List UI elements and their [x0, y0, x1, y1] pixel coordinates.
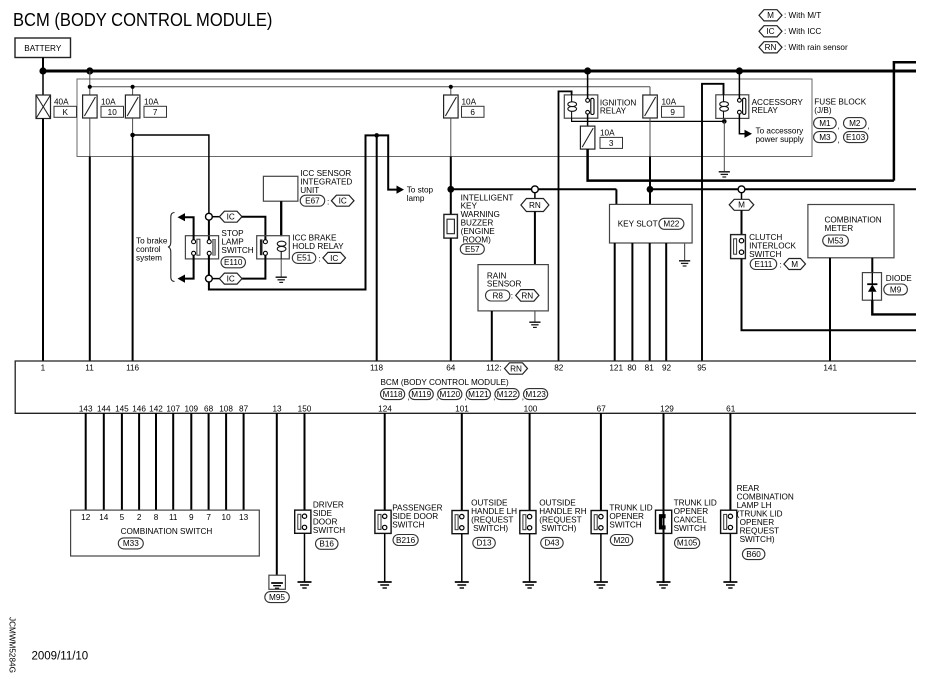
- svg-text:81: 81: [645, 363, 655, 372]
- svg-text:145: 145: [115, 405, 129, 414]
- passenger side door switch B216: [375, 503, 443, 533]
- svg-text:107: 107: [166, 405, 180, 414]
- svg-text:M2: M2: [849, 119, 861, 128]
- label fuse block: [814, 98, 866, 115]
- wire bus to accessory relay contact: [738, 71, 740, 99]
- svg-text:87: 87: [239, 405, 249, 414]
- svg-text::: :: [511, 292, 513, 301]
- svg-text:,: ,: [838, 122, 840, 131]
- svg-text:3: 3: [609, 139, 614, 148]
- svg-text:67: 67: [597, 405, 607, 414]
- node coil ground junction: [722, 119, 727, 124]
- connector D13: [473, 537, 496, 548]
- svg-text:M1: M1: [819, 119, 831, 128]
- wire driver door switch to ground: [304, 533, 306, 582]
- svg-text:11: 11: [85, 363, 94, 372]
- svg-text:13: 13: [239, 513, 249, 522]
- svg-text:E57: E57: [465, 245, 480, 254]
- wire diode to right edge: [872, 300, 916, 314]
- wire accessory relay coil to BCM pin 95: [702, 84, 724, 361]
- svg-text:116: 116: [126, 363, 139, 372]
- connector M105: [675, 537, 700, 548]
- svg-text:HOLD RELAY: HOLD RELAY: [292, 242, 344, 251]
- battery: [15, 38, 71, 58]
- rain sensor R8: [478, 265, 548, 311]
- wire junction to BCM pin 118: [376, 135, 378, 361]
- svg-text:IC: IC: [339, 197, 347, 206]
- wire ignition relay coil to BCM pin 82: [559, 91, 572, 361]
- svg-text:IC: IC: [330, 254, 338, 263]
- node buzzer tap: [447, 186, 454, 193]
- pin 142: [149, 405, 163, 414]
- svg-text:E111: E111: [754, 260, 772, 269]
- pin 118: [370, 363, 383, 372]
- svg-text:7: 7: [206, 513, 211, 522]
- svg-text:power supply: power supply: [756, 135, 805, 144]
- pin 145: [115, 405, 129, 414]
- outside handle LH request switch D13: [452, 499, 517, 534]
- connector E67 : IC: [300, 195, 354, 206]
- node battery junction: [39, 67, 46, 74]
- svg-text:M3: M3: [819, 133, 831, 142]
- svg-text:68: 68: [204, 405, 214, 414]
- svg-text:SWITCH: SWITCH: [221, 246, 253, 255]
- svg-text:(J/B): (J/B): [814, 106, 832, 115]
- wire fuse 7 branch to stop lamp switch: [133, 135, 209, 213]
- pin 150: [298, 405, 312, 414]
- connector M2: [844, 118, 870, 131]
- svg-text:ROOM): ROOM): [463, 235, 491, 244]
- svg-text:9: 9: [189, 513, 194, 522]
- svg-text:5: 5: [120, 513, 125, 522]
- connector M95: [265, 592, 290, 603]
- wire switch output to junction: [208, 255, 210, 275]
- svg-text:M: M: [767, 11, 774, 20]
- wire BCM pin 13 to M95: [276, 413, 278, 583]
- svg-text:M: M: [738, 201, 745, 210]
- svg-text:RN: RN: [765, 43, 777, 52]
- fuse 10A 7: [125, 95, 166, 118]
- svg-text:SWITCH: SWITCH: [674, 524, 706, 533]
- svg-text:144: 144: [97, 405, 111, 414]
- pin 64: [446, 363, 456, 372]
- pin 82: [554, 363, 564, 372]
- wire fuse 7 to BCM pin 116: [132, 118, 134, 361]
- svg-text:E103: E103: [846, 133, 866, 142]
- pin 124: [378, 405, 392, 414]
- hexagon IC lower: [212, 273, 242, 284]
- svg-text:95: 95: [697, 363, 707, 372]
- wire rear combination lamp to ground: [729, 533, 731, 582]
- svg-text:11: 11: [169, 513, 178, 522]
- connector B216: [393, 535, 418, 546]
- svg-text:: With M/T: : With M/T: [784, 11, 821, 20]
- wire ICC relay contact to lower IC hexagon: [242, 255, 265, 278]
- wire fuse-block inner bus: [90, 71, 650, 95]
- clutch interlock switch E111: [731, 233, 797, 259]
- svg-text:UNIT: UNIT: [300, 186, 319, 195]
- pin 112 : RN: [486, 363, 527, 374]
- connector M121: [466, 389, 495, 402]
- trunk lid opener cancel switch M105: [656, 499, 717, 534]
- pin 67: [597, 405, 607, 414]
- node accessory relay feed junction: [736, 67, 743, 74]
- svg-text:SWITCH: SWITCH: [749, 250, 781, 259]
- ground M95 boxed: [269, 575, 286, 589]
- svg-text:100: 100: [524, 405, 538, 414]
- pin 109: [184, 405, 198, 414]
- wire fuse 10 to BCM pin 11: [89, 118, 91, 361]
- hexagon RN branch: [521, 193, 549, 212]
- svg-text:61: 61: [726, 405, 736, 414]
- pin 100: [524, 405, 538, 414]
- pin 143: [79, 405, 93, 414]
- ground passenger door switch: [378, 582, 392, 588]
- svg-text::: :: [327, 198, 329, 207]
- svg-text:118: 118: [370, 363, 383, 372]
- pin 11: [85, 363, 94, 372]
- hexagon IC upper: [212, 211, 242, 222]
- wire bus to ignition relay contact: [587, 71, 589, 99]
- svg-text:M121: M121: [468, 390, 489, 399]
- connector R8 : RN: [486, 290, 539, 302]
- svg-text:,: ,: [868, 122, 870, 131]
- ground driver door switch: [298, 582, 312, 588]
- ignition relay: [564, 95, 636, 118]
- wire passenger door switch to ground: [384, 533, 386, 582]
- wire BCM pin 129 to trunk lid cancel switch: [663, 413, 665, 583]
- svg-text:M120: M120: [440, 390, 461, 399]
- node stop lamp top circle: [206, 213, 213, 220]
- connector E110: [221, 257, 246, 268]
- svg-text:82: 82: [554, 363, 564, 372]
- intelligent key warning buzzer E57: [444, 193, 513, 244]
- ICC sensor integrated unit E67: [263, 169, 352, 201]
- ground rear combination lamp: [723, 582, 737, 588]
- wire outside handle LH to ground: [461, 534, 463, 582]
- svg-text:6: 6: [470, 108, 475, 117]
- wire ICC unit to relay coil: [280, 201, 282, 236]
- svg-text:: With ICC: : With ICC: [784, 27, 821, 36]
- wire outside handle RH to ground: [529, 534, 531, 582]
- svg-text:121: 121: [609, 363, 623, 372]
- ground ICC relay: [276, 277, 287, 282]
- svg-text:B60: B60: [746, 550, 761, 559]
- pin 95: [697, 363, 707, 372]
- svg-text::: :: [319, 255, 321, 264]
- node inner bus at fuse 7: [131, 85, 135, 89]
- ground trunk lid cancel switch: [657, 582, 671, 588]
- wire fuse 9 down to key slot: [649, 118, 651, 205]
- pin 1: [41, 363, 46, 372]
- wire switch to brake control lower: [185, 255, 194, 278]
- svg-text:system: system: [136, 254, 162, 263]
- ground trunk lid opener switch: [594, 582, 608, 588]
- fuse 10A 10: [83, 95, 124, 118]
- svg-text:10: 10: [222, 513, 232, 522]
- wires BCM to combination switch: [86, 413, 244, 510]
- svg-text:BCM (BODY CONTROL MODULE): BCM (BODY CONTROL MODULE): [380, 378, 509, 387]
- trunk lid opener switch M20: [591, 504, 653, 534]
- svg-text:101: 101: [455, 405, 469, 414]
- wire key slot ground pin: [684, 243, 686, 261]
- svg-text:142: 142: [149, 405, 163, 414]
- arrow to stop lamp: [397, 185, 434, 203]
- wire rain sensor to BCM pin 112: [491, 311, 493, 361]
- pin 61: [726, 405, 736, 414]
- svg-text:DIODE: DIODE: [886, 274, 912, 283]
- wire 40A to BCM pin 1: [42, 119, 44, 362]
- wire ignition relay coil to ground rail: [572, 118, 725, 121]
- diode M9: [862, 273, 912, 301]
- ground rain sensor: [529, 322, 540, 327]
- wire circle to switch: [208, 220, 210, 239]
- svg-text:M53: M53: [828, 236, 844, 245]
- node ignition relay feed junction: [584, 67, 591, 74]
- svg-text:BCM (BODY CONTROL MODULE): BCM (BODY CONTROL MODULE): [13, 9, 272, 30]
- svg-text:M33: M33: [123, 539, 139, 548]
- connector M120: [438, 389, 467, 402]
- legend hexagon RN : With rain sensor: [759, 42, 848, 53]
- ground outside handle LH: [455, 582, 469, 588]
- node stop lamp bottom circle: [206, 275, 213, 282]
- svg-text:lamp: lamp: [407, 194, 425, 203]
- hexagon M branch: [729, 193, 754, 211]
- svg-text:109: 109: [184, 405, 198, 414]
- svg-text:SENSOR: SENSOR: [487, 280, 522, 289]
- svg-text:10: 10: [108, 108, 118, 117]
- svg-text:12: 12: [81, 513, 91, 522]
- pin 144: [97, 405, 111, 414]
- fusible link 40A K: [36, 71, 77, 119]
- svg-text:9: 9: [670, 108, 675, 117]
- svg-text:RN: RN: [529, 201, 541, 210]
- pin 116: [126, 363, 139, 372]
- connector E111 : M: [750, 259, 805, 270]
- svg-text:M119: M119: [411, 390, 431, 399]
- svg-text:8: 8: [154, 513, 159, 522]
- connector E51 : IC: [292, 252, 345, 263]
- label date: [32, 651, 89, 663]
- connector D43: [541, 537, 564, 548]
- node stop lamp net junction: [374, 133, 379, 138]
- svg-text:146: 146: [132, 405, 146, 414]
- pin 68: [204, 405, 214, 414]
- wire battery to bus: [42, 58, 44, 72]
- wire rain sensor to ground: [534, 311, 536, 322]
- svg-text:B16: B16: [319, 540, 334, 549]
- label drawing number: [8, 617, 17, 673]
- wire BCM pin 61 to rear combination lamp: [729, 413, 731, 510]
- key slot M22: [610, 204, 693, 243]
- wire clutch interlock to right edge: [742, 259, 917, 331]
- pin 80: [627, 363, 637, 372]
- arrow to brake control upper: [178, 213, 186, 221]
- wire ICC relay coil to ground: [280, 259, 282, 277]
- wire key slot to BCM pin 80: [631, 243, 633, 361]
- wire combination meter to diode: [871, 258, 873, 273]
- ICC brake hold relay E51: [257, 236, 290, 259]
- svg-text:10A: 10A: [462, 97, 477, 106]
- svg-text:M118: M118: [383, 390, 403, 399]
- fuse 10A 6: [444, 95, 484, 118]
- node RN branch circle: [532, 186, 539, 193]
- node inner bus at fuse 6: [449, 85, 453, 89]
- svg-text:M123: M123: [525, 390, 546, 399]
- label ICC brake hold relay: [292, 234, 344, 252]
- svg-text:COMBINATION SWITCH: COMBINATION SWITCH: [121, 527, 213, 536]
- pin 129: [660, 405, 674, 414]
- label to brake control system: [136, 237, 168, 263]
- svg-text:JCMWM5284G: JCMWM5284G: [8, 617, 17, 673]
- ground key slot: [679, 261, 690, 266]
- pin 87: [239, 405, 249, 414]
- pin 101: [455, 405, 469, 414]
- wire BCM pin 67 to trunk lid opener switch: [600, 413, 602, 511]
- wire fuse 6 down: [450, 118, 452, 189]
- brace to brake control system: [168, 213, 175, 282]
- wire fuse6 net across: [451, 188, 617, 190]
- combination meter M53: [808, 205, 894, 258]
- connector M3: [814, 132, 840, 145]
- svg-text:SWITCH): SWITCH): [740, 535, 775, 544]
- svg-text::: :: [780, 261, 782, 270]
- rear combination lamp LH trunk lid opener request switch B60: [721, 484, 794, 544]
- svg-text:E110: E110: [224, 258, 243, 267]
- svg-text:METER: METER: [825, 224, 854, 233]
- svg-text:SWITCH): SWITCH): [541, 524, 576, 533]
- ground outside handle RH: [523, 582, 537, 588]
- label stop lamp switch: [221, 229, 253, 255]
- svg-text:M105: M105: [677, 539, 698, 548]
- svg-text:143: 143: [79, 405, 93, 414]
- svg-text:2: 2: [137, 513, 142, 522]
- legend hexagon IC : With ICC: [759, 26, 821, 37]
- svg-text:M: M: [791, 260, 798, 269]
- connector M122: [495, 389, 524, 402]
- svg-text:RELAY: RELAY: [600, 107, 627, 116]
- arrow to brake control lower: [178, 275, 186, 283]
- svg-text:64: 64: [446, 363, 456, 372]
- wire fuse 3 output rail: [588, 149, 894, 181]
- svg-text:129: 129: [660, 405, 674, 414]
- node inner bus at fuse 10: [88, 85, 92, 89]
- wire net to key slot pin: [615, 189, 617, 204]
- wire switch to brake control upper: [185, 217, 194, 240]
- svg-text:1: 1: [41, 363, 46, 372]
- connector M119: [409, 389, 438, 402]
- svg-text:10A: 10A: [662, 97, 677, 106]
- svg-text:10A: 10A: [144, 97, 159, 106]
- svg-text:M20: M20: [614, 536, 630, 545]
- pin 81: [645, 363, 655, 372]
- svg-text:K: K: [62, 108, 68, 117]
- driver side door switch B16: [295, 500, 346, 535]
- wire fuse 9 net to right edge: [650, 188, 916, 190]
- fuse 10A 3: [580, 126, 622, 149]
- wire BCM pin 100 to outside handle RH: [529, 413, 531, 511]
- svg-text:B216: B216: [396, 536, 416, 545]
- svg-text:SWITCH: SWITCH: [609, 521, 641, 530]
- svg-text:SWITCH: SWITCH: [313, 526, 345, 535]
- node fuse 7 branch: [130, 133, 135, 138]
- svg-text:7: 7: [153, 108, 158, 117]
- wire top-right corner to edge: [894, 62, 916, 180]
- connector E57: [460, 244, 484, 255]
- svg-text:108: 108: [219, 405, 233, 414]
- svg-text:80: 80: [627, 363, 637, 372]
- svg-text:E51: E51: [297, 254, 312, 263]
- svg-text:13: 13: [272, 405, 282, 414]
- legend hexagon M : With M/T: [759, 10, 821, 21]
- wire trunk lid opener switch to ground: [600, 534, 602, 582]
- wire M hexagon to clutch interlock switch: [741, 210, 743, 234]
- wire BCM pin 150 to driver side door switch: [304, 413, 306, 510]
- wire BCM pin 101 to outside handle LH: [461, 413, 463, 511]
- connector M1: [814, 118, 840, 131]
- svg-text:R8: R8: [492, 292, 503, 301]
- pin 146: [132, 405, 146, 414]
- accessory relay: [716, 95, 804, 119]
- wire BCM pin 124 to passenger door switch: [384, 413, 386, 510]
- svg-text:,: ,: [838, 136, 840, 145]
- pin 13: [272, 405, 282, 414]
- connector M118: [381, 389, 410, 402]
- title BCM (BODY CONTROL MODULE): [13, 9, 272, 30]
- pin 108: [219, 405, 233, 414]
- outside handle RH request switch D43: [520, 499, 587, 534]
- svg-text:BATTERY: BATTERY: [24, 44, 62, 53]
- ground fuse block relays: [719, 172, 730, 177]
- svg-text:SWITCH: SWITCH: [392, 520, 424, 529]
- wire ignition relay to fuse 3: [587, 114, 589, 126]
- svg-text:M122: M122: [497, 390, 518, 399]
- wire key slot to BCM pin 121: [614, 243, 616, 361]
- svg-text:RN: RN: [521, 291, 533, 300]
- svg-text:124: 124: [378, 405, 392, 414]
- svg-text:RELAY: RELAY: [752, 106, 779, 115]
- stop lamp switch E110: [185, 236, 218, 259]
- svg-text:14: 14: [99, 513, 109, 522]
- svg-text:112:: 112:: [486, 363, 501, 372]
- connector M20: [610, 535, 633, 546]
- wire IC hexagon to ICC relay contact: [242, 217, 265, 241]
- pin 121: [609, 363, 623, 372]
- connector B16: [316, 538, 339, 549]
- svg-text:D13: D13: [476, 539, 491, 548]
- svg-text:92: 92: [662, 363, 672, 372]
- pin 92: [662, 363, 672, 372]
- pin 141: [823, 363, 837, 372]
- svg-text:141: 141: [823, 363, 837, 372]
- wire buzzer to BCM pin 64: [450, 238, 452, 361]
- svg-text:IC: IC: [227, 275, 235, 284]
- fuse 10A 9: [643, 95, 684, 118]
- main battery bus: [43, 69, 916, 72]
- svg-text:KEY SLOT: KEY SLOT: [618, 220, 658, 229]
- connector M123: [524, 389, 548, 400]
- combination switch M33: [71, 510, 260, 556]
- connector B60: [742, 549, 765, 560]
- wire key slot to BCM pin 92: [665, 243, 667, 361]
- svg-text:40A: 40A: [54, 97, 69, 106]
- svg-text:D43: D43: [544, 539, 559, 548]
- node clutch interlock branch circle: [738, 186, 745, 193]
- node fuse10 feed junction: [86, 67, 93, 74]
- svg-text:M95: M95: [269, 593, 285, 602]
- pin 107: [166, 405, 180, 414]
- svg-text:M22: M22: [663, 220, 679, 229]
